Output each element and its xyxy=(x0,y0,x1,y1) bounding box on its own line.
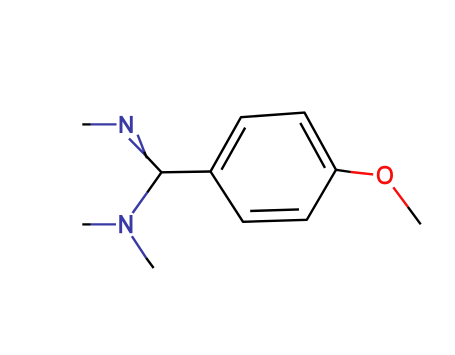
node O oxygen label xyxy=(378,167,391,183)
wire N2-CH3 lower-right methyl bond black half xyxy=(146,258,154,268)
wire N2-CH3 bottom horizontal methyl bond black half xyxy=(82,223,90,225)
wire N1-CH3 top methyl bond black half xyxy=(82,123,90,125)
wire C1=N1 double bond main line blue half xyxy=(129,139,145,156)
ring double bond inner line upper-right xyxy=(300,123,325,168)
wire C1-N2 bond blue half xyxy=(133,193,148,213)
wire N1-CH3 top methyl bond blue half xyxy=(91,123,117,125)
benzene ring outline xyxy=(211,113,337,222)
wire C1=N1 double bond second line black half xyxy=(144,152,147,159)
wire ring-O bond red half xyxy=(351,172,373,174)
node N2 bottom nitrogen label xyxy=(121,215,131,233)
ring double bond inner line bottom xyxy=(250,209,299,211)
wire N2-CH3 bottom horizontal methyl bond blue half xyxy=(91,223,117,225)
wire O-CH3 methoxy methyl bond red half xyxy=(393,187,408,207)
wire O-CH3 methoxy methyl bond black half xyxy=(408,207,421,224)
wire N2-CH3 lower-right methyl bond blue half xyxy=(132,236,146,258)
ring double bond inner line upper-left xyxy=(222,128,246,170)
wire C1-ring ipso bond xyxy=(162,170,211,173)
wire C1=N1 double bond second line blue half xyxy=(138,135,145,152)
node N1 top nitrogen label xyxy=(121,116,131,133)
wire C1=N1 double bond main line black half xyxy=(145,155,161,172)
wire C1-N2 bond black half xyxy=(147,172,161,192)
wire ring-O bond black half xyxy=(336,170,351,172)
